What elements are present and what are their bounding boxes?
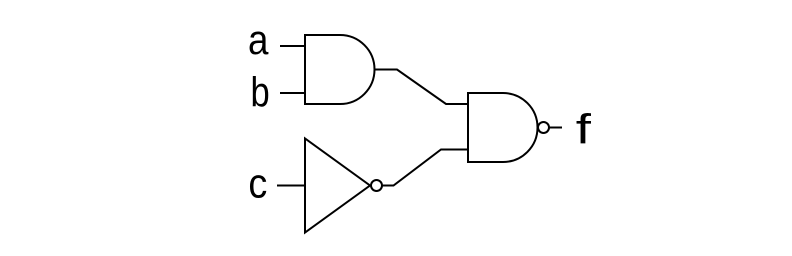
svg-text:c: c (248, 161, 267, 207)
nand-gate U3 (468, 93, 538, 162)
svg-text:f: f (576, 106, 592, 153)
not-gate U2 bubble (371, 180, 382, 191)
wire input c (277, 185, 305, 187)
wire and-output to nand top input (375, 70, 469, 105)
wire not-output to nand bottom input (382, 150, 468, 186)
wire input b (280, 92, 305, 94)
wire output f (550, 127, 563, 129)
svg-text:b: b (251, 69, 270, 116)
wire input a (280, 45, 305, 47)
and-gate U1 (305, 35, 375, 104)
nand-gate U3 bubble (538, 122, 549, 133)
svg-text:a: a (248, 17, 268, 64)
not-gate U2 triangle (305, 139, 370, 233)
